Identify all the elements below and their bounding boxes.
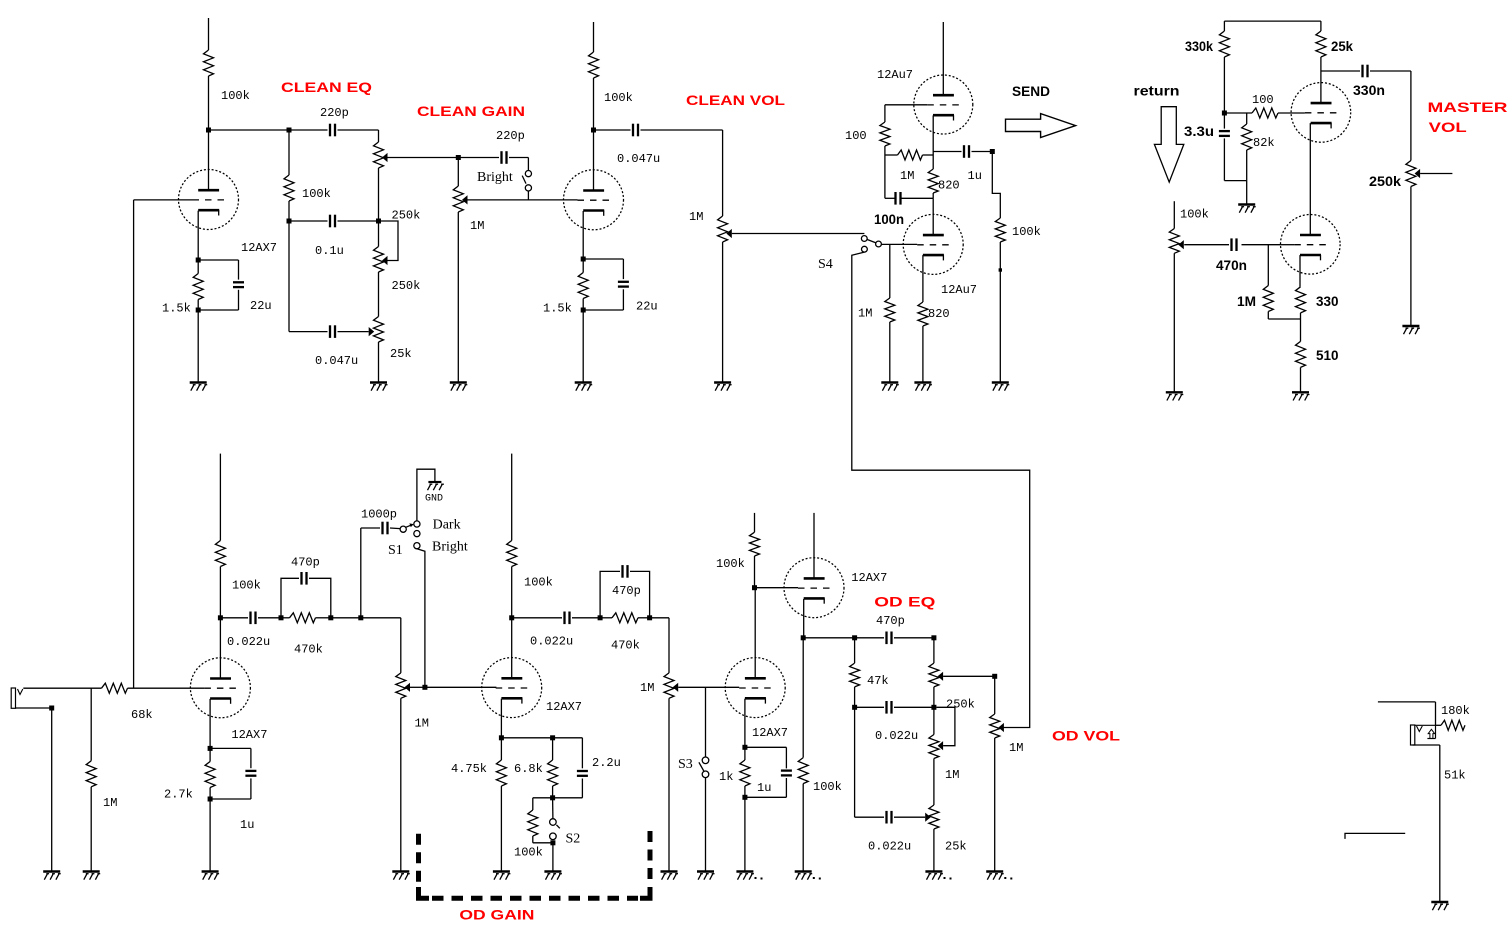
tube V3a 12Au7 return stage bbox=[1291, 83, 1351, 143]
ground S2 bbox=[544, 870, 561, 872]
ground 1M V2b bbox=[881, 381, 898, 383]
node 470k left OD2 bbox=[598, 615, 603, 620]
wire 470k leads OD1 bbox=[281, 617, 290, 619]
wire master wiper out bbox=[1420, 173, 1452, 175]
wiper arrow bass pot bbox=[369, 327, 375, 336]
svg-text:1000p: 1000p bbox=[361, 508, 397, 522]
capacitor 3.3u return bbox=[1223, 113, 1225, 129]
capacitor 0.1u clean EQ bbox=[329, 215, 331, 228]
resistor 1M input bbox=[90, 688, 92, 761]
wire V2b plate lead bbox=[932, 198, 934, 235]
potentiometer 250k master volume bbox=[1406, 161, 1416, 187]
switch Bright clean contact 1 bbox=[525, 171, 531, 177]
wire node C down to 0.047u bbox=[288, 221, 290, 332]
switch S3 contact 2 bbox=[702, 771, 709, 778]
svg-text:100k: 100k bbox=[524, 576, 553, 590]
wire 1M right lead bbox=[923, 154, 934, 156]
svg-text:0.047u: 0.047u bbox=[315, 354, 358, 368]
wire S3 riser bbox=[705, 687, 707, 757]
tube V5b 12AX7 OD follower bbox=[784, 558, 844, 618]
svg-text:CLEAN GAIN: CLEAN GAIN bbox=[417, 103, 525, 119]
wire 22u top lead bbox=[238, 260, 240, 280]
wire 22u bottom lead V1b bbox=[622, 289, 624, 310]
node plate OD3 bbox=[752, 585, 757, 590]
potentiometer 1M clean gain bbox=[453, 186, 463, 212]
node 470k left OD1 bbox=[279, 615, 284, 620]
wire grid V1a bbox=[134, 199, 193, 201]
ground return jack bbox=[1431, 901, 1448, 903]
wire plate lead V1a bbox=[208, 130, 210, 190]
switch S1 throw mid bbox=[414, 531, 420, 537]
wire 820 to 100n node bbox=[932, 193, 934, 198]
switch S3 contact 1 bbox=[702, 757, 709, 764]
wire cathode V1b bbox=[582, 211, 584, 259]
wire 100k OD1 to node bbox=[219, 567, 221, 618]
send arrow bbox=[1006, 114, 1076, 138]
capacitor 470p OD2 bbox=[621, 565, 623, 578]
switch S4 lever bbox=[867, 239, 876, 243]
wire 0.022u to 470k OD2 bbox=[572, 617, 600, 619]
switch Bright lever bbox=[522, 176, 526, 184]
svg-text:100k: 100k bbox=[716, 557, 745, 571]
wire OD gain B to ground bbox=[668, 698, 670, 871]
node input sleeve bbox=[49, 706, 54, 711]
wire 100 to 1M node bbox=[884, 146, 886, 155]
svg-text:Dark: Dark bbox=[433, 518, 461, 533]
svg-text:100k: 100k bbox=[813, 780, 842, 794]
wire S2 node to 100k bbox=[533, 797, 553, 799]
wire wiper to node S1 bbox=[410, 686, 425, 688]
svg-text:510: 510 bbox=[1316, 347, 1339, 363]
wire 820 V2b to ground bbox=[922, 326, 924, 383]
wire plate resistor to node A bbox=[208, 76, 210, 130]
svg-text:4.75k: 4.75k bbox=[451, 762, 487, 776]
node cathode OD3 bbox=[742, 745, 747, 750]
wire OD1 cathode ground bbox=[209, 799, 211, 872]
svg-text:250k: 250k bbox=[1369, 173, 1401, 189]
wire 100k OD2 to node bbox=[511, 567, 513, 618]
resistor 100k plate clean stage 1 bbox=[204, 50, 214, 76]
node 1u output bbox=[990, 149, 995, 154]
wire 1u to 100k bbox=[972, 151, 993, 153]
svg-text:1M: 1M bbox=[640, 681, 654, 695]
wire 1000p to S1 pole bbox=[390, 527, 400, 530]
wire gain pot to ground bbox=[457, 212, 459, 383]
resistor 47k OD EQ bbox=[854, 638, 856, 663]
wire cathode node to 22u V1b bbox=[583, 258, 623, 260]
wire cathode V3a to plate V3b bbox=[1309, 123, 1311, 235]
node cathode bottom V1b bbox=[581, 308, 586, 313]
svg-text:100k: 100k bbox=[1012, 225, 1041, 239]
switch S1 throw Dark bbox=[414, 521, 420, 527]
svg-text:330k: 330k bbox=[1185, 38, 1213, 54]
svg-text:12AX7: 12AX7 bbox=[752, 726, 788, 740]
wire 470k leads OD2 bbox=[600, 617, 612, 619]
svg-text:220p: 220p bbox=[320, 106, 349, 120]
wire clean vol wiper to S4 bbox=[732, 233, 865, 235]
wire B+ feed OD3 bbox=[754, 513, 756, 532]
wire input tip bbox=[23, 687, 101, 689]
wire 22u top lead V1b bbox=[622, 259, 624, 279]
node 470k right OD1 bbox=[328, 615, 333, 620]
svg-text:25k: 25k bbox=[945, 840, 967, 854]
svg-text:0.022u: 0.022u bbox=[875, 729, 918, 743]
wire cathode V1a bbox=[197, 211, 199, 260]
wiper arrow OD treble bbox=[938, 672, 944, 681]
svg-text:1u: 1u bbox=[968, 169, 982, 183]
wire plate node to 330n bbox=[1321, 70, 1360, 72]
wire S3 to ground bbox=[705, 778, 707, 872]
wiper arrow master vol bbox=[1415, 169, 1421, 178]
svg-text:1k: 1k bbox=[719, 770, 733, 784]
resistor 100k send load bbox=[995, 218, 1005, 242]
node S1 tap bbox=[358, 615, 363, 620]
resistor 4.75k cathode OD2 bbox=[496, 760, 506, 786]
node D gain pot top bbox=[456, 155, 461, 160]
wire grid V2a bbox=[885, 104, 927, 106]
potentiometer 100k return bbox=[1169, 229, 1179, 254]
wire OD mid to bass pot bbox=[933, 759, 935, 806]
svg-text:100: 100 bbox=[1252, 93, 1274, 107]
wire 25k to plate node bbox=[1320, 57, 1322, 71]
svg-text:OD VOL: OD VOL bbox=[1052, 728, 1121, 744]
potentiometer 25k OD bass bbox=[929, 805, 939, 829]
svg-text:22u: 22u bbox=[636, 300, 658, 314]
wiper arrow gain pot bbox=[462, 195, 468, 204]
wire 330k to grid node bbox=[1223, 57, 1225, 113]
node cathode bottom OD1 bbox=[208, 797, 213, 802]
wire cathode V2b bbox=[922, 255, 924, 302]
svg-text:0.022u: 0.022u bbox=[530, 635, 573, 649]
potentiometer 250k mid clean bbox=[374, 247, 384, 273]
node 6.8k top bbox=[550, 735, 555, 740]
svg-text:S4: S4 bbox=[818, 257, 833, 272]
svg-text:1M: 1M bbox=[858, 307, 872, 321]
svg-text:OD GAIN: OD GAIN bbox=[459, 907, 534, 923]
ground OD gain A bbox=[392, 870, 409, 872]
ground clean vol pot bbox=[714, 381, 731, 383]
wire 470p bypass OD2 bbox=[600, 571, 620, 617]
ground master pot bbox=[1402, 325, 1419, 327]
svg-text:GND: GND bbox=[425, 494, 443, 505]
capacitor 2.2u OD2 bbox=[581, 738, 583, 769]
node cathode OD2 bbox=[499, 735, 504, 740]
svg-text:100k: 100k bbox=[1180, 208, 1209, 222]
svg-text:12AX7: 12AX7 bbox=[241, 241, 277, 255]
svg-text:470p: 470p bbox=[291, 556, 320, 570]
wire cathode to ground bbox=[197, 310, 199, 383]
ground follower load bbox=[795, 870, 812, 872]
svg-text:MASTER: MASTER bbox=[1428, 99, 1508, 115]
svg-text:100k: 100k bbox=[232, 579, 261, 593]
tube V4a 12AX7 OD stage 1 bbox=[190, 658, 250, 718]
wire node A to node B bbox=[209, 129, 290, 131]
svg-text:100n: 100n bbox=[874, 211, 904, 227]
wire bright switch to grid bbox=[527, 191, 529, 200]
svg-text:2.7k: 2.7k bbox=[164, 788, 193, 802]
potentiometer 25k bass clean bbox=[374, 317, 384, 343]
wiper arrow OD mid bbox=[938, 741, 944, 750]
wire cathode OD3 bbox=[744, 699, 746, 748]
wire node D to 220p bright bbox=[458, 157, 499, 159]
junction dot send load bbox=[999, 268, 1002, 271]
svg-text:1u: 1u bbox=[757, 781, 771, 795]
wire 1u tap bbox=[933, 151, 961, 153]
wiper arrow mid pot bbox=[382, 256, 388, 265]
wire node to S1 node bbox=[331, 617, 361, 619]
wire bus to 470p bbox=[803, 637, 854, 639]
wire 25k OD to ground bbox=[933, 829, 935, 872]
capacitor 330n master bbox=[1361, 65, 1363, 78]
svg-text:100k: 100k bbox=[302, 187, 331, 201]
wire node C to 0.1u bbox=[289, 220, 328, 222]
resistor 330k feedback bbox=[1223, 21, 1225, 31]
svg-text:0.022u: 0.022u bbox=[227, 635, 270, 649]
wire S2 to ground bbox=[552, 843, 554, 872]
capacitor 22u clean stage 2 bbox=[618, 281, 629, 283]
wire 0.047u to clean vol pot bbox=[641, 129, 723, 131]
resistor 1M horizontal follower bbox=[898, 150, 923, 160]
svg-text:return: return bbox=[1134, 83, 1180, 99]
ground OD1 cathode bbox=[202, 870, 219, 872]
svg-text:0.022u: 0.022u bbox=[868, 840, 911, 854]
svg-text:25k: 25k bbox=[390, 347, 412, 361]
ground dots follower bbox=[813, 877, 815, 879]
wire B+ feed follower bbox=[942, 22, 944, 86]
wire OD EQ bass drop bbox=[854, 707, 856, 817]
svg-text:S3: S3 bbox=[678, 757, 693, 772]
wire node B to 220p bbox=[289, 129, 328, 131]
svg-text:820: 820 bbox=[928, 307, 950, 321]
capacitor 1000p S1 bbox=[381, 522, 383, 535]
resistor 1.5k cathode V1a bbox=[197, 260, 199, 274]
switch S4 throw 2 bbox=[862, 246, 868, 252]
svg-text:1.5k: 1.5k bbox=[543, 302, 572, 316]
capacitor 220p bright clean bbox=[500, 151, 502, 164]
svg-text:12AX7: 12AX7 bbox=[851, 571, 887, 585]
resistor 100 grid V3a bbox=[1252, 108, 1278, 118]
wire V1b plate to 0.047u bbox=[594, 129, 631, 131]
ground clean gain pot bbox=[450, 381, 467, 383]
svg-text:470k: 470k bbox=[294, 643, 323, 657]
svg-text:6.8k: 6.8k bbox=[514, 762, 543, 776]
node cathode OD1 bbox=[208, 746, 213, 751]
capacitor 470n master bbox=[1230, 238, 1232, 251]
capacitor 1u send bbox=[963, 145, 965, 158]
resistor 25k plate V3a bbox=[1320, 21, 1322, 31]
ground return pot bbox=[1166, 391, 1183, 393]
wire master pot to ground bbox=[1410, 187, 1412, 327]
wire S1 riser bbox=[360, 528, 362, 618]
svg-text:CLEAN EQ: CLEAN EQ bbox=[281, 79, 372, 95]
return arrow bbox=[1154, 107, 1183, 182]
wire to OD gain B pot bbox=[650, 617, 669, 619]
wire 1u OD1 top lead bbox=[250, 748, 252, 768]
capacitor 0.047u clean EQ bbox=[329, 325, 331, 338]
svg-text:82k: 82k bbox=[1253, 136, 1275, 150]
return jack bbox=[1411, 725, 1415, 745]
svg-text:1M: 1M bbox=[470, 219, 484, 233]
resistor 1.5k cathode V1b bbox=[582, 259, 584, 273]
wire OD3 cathode ground bbox=[744, 797, 746, 871]
wire cathode node to 1u OD1 bbox=[210, 747, 251, 749]
wire grid V3a line bbox=[1224, 112, 1252, 114]
wire 330n to master pot bbox=[1370, 70, 1411, 72]
svg-text:S1: S1 bbox=[388, 543, 403, 558]
wire cathode bus OD2 bbox=[501, 737, 582, 739]
node S2 bottom bbox=[550, 840, 555, 845]
wire OD1 node to 0.022u bbox=[220, 617, 248, 619]
tube V4b 12AX7 OD stage 2 bbox=[482, 658, 542, 718]
wire cathode node to 22u bbox=[198, 259, 238, 261]
wire 470p leads bbox=[855, 637, 884, 639]
wire 100k send to ground bbox=[999, 242, 1001, 383]
resistor 1k cathode OD3 bbox=[740, 760, 750, 786]
svg-text:470n: 470n bbox=[1216, 257, 1247, 273]
wiper arrow OD gain A bbox=[405, 683, 411, 692]
switch S1 throw Bright bbox=[414, 543, 420, 549]
wire plate lead V1b bbox=[593, 130, 595, 191]
wire OD gain A to ground bbox=[400, 698, 402, 871]
svg-text:S2: S2 bbox=[566, 832, 581, 847]
wire B+ feed stage 1 bbox=[208, 18, 210, 50]
wire to OD2 grid bbox=[425, 686, 497, 688]
node treble-mid junction bbox=[376, 219, 381, 224]
capacitor 220p clean EQ bbox=[329, 124, 331, 137]
svg-text:220p: 220p bbox=[496, 129, 525, 143]
resistor 100k plate OD1 bbox=[215, 541, 225, 567]
wire S2 stub bbox=[552, 798, 554, 819]
wire plate lead OD3 bbox=[754, 588, 756, 679]
resistor 100k follower load bbox=[802, 638, 804, 758]
potentiometer 1M OD volume bbox=[994, 676, 996, 714]
ground master cathode bbox=[1292, 391, 1309, 393]
switch S2 contact 1 bbox=[550, 819, 557, 826]
wire join to ground master grid bbox=[1246, 181, 1248, 205]
wire 68k to OD1 grid bbox=[128, 687, 205, 689]
wire 0.1u to mid node bbox=[338, 220, 379, 222]
switch S4 throw 1 bbox=[861, 236, 867, 242]
resistor 100k plate OD3 bbox=[750, 532, 760, 556]
wire grid V2b to 1M bbox=[889, 244, 891, 298]
ground OD3 cathode bbox=[736, 870, 753, 872]
wire grid follower bbox=[755, 587, 799, 589]
wire plate resistor to V1b node bbox=[593, 78, 595, 130]
svg-text:1M: 1M bbox=[689, 210, 703, 224]
wire 220p bright to switch bbox=[509, 157, 528, 159]
switch S2 lever bbox=[556, 825, 559, 829]
wire B+ feed OD1 bbox=[219, 454, 221, 541]
svg-text:1M: 1M bbox=[415, 717, 429, 731]
tube V3b 12Au7 master output bbox=[1281, 215, 1341, 275]
ground dots OD3 bbox=[755, 877, 757, 879]
node S2 top bbox=[550, 795, 555, 800]
resistor 1M grid V3b bbox=[1267, 245, 1269, 286]
node 47k bottom bbox=[852, 705, 857, 710]
capacitor 22u clean stage 1 bbox=[233, 281, 244, 283]
ground 4.75k bbox=[493, 870, 510, 872]
svg-text:1M: 1M bbox=[945, 768, 959, 782]
node plate OD2 bbox=[509, 615, 514, 620]
wire bass pot to ground bbox=[378, 342, 380, 383]
wire cathode OD2 bbox=[500, 699, 502, 738]
wire Dark to GND bbox=[417, 469, 435, 521]
svg-text:470p: 470p bbox=[612, 584, 641, 598]
ground OD gain B bbox=[661, 870, 678, 872]
potentiometer 1M OD gain B bbox=[664, 673, 674, 698]
capacitor 470p OD1 bbox=[300, 572, 302, 585]
node grid V3a bbox=[1222, 111, 1227, 116]
bracket OD GAIN bbox=[416, 834, 421, 886]
wire 330 to 510 bbox=[1300, 313, 1302, 342]
node 470k right OD2 bbox=[647, 615, 652, 620]
ground 820 V2b bbox=[914, 381, 931, 383]
wire 0.022u to 470k node bbox=[258, 617, 281, 619]
capacitor 100n interstage bbox=[894, 192, 896, 205]
node C bbox=[287, 219, 292, 224]
ground OD EQ bbox=[925, 870, 942, 872]
svg-text:250k: 250k bbox=[946, 698, 975, 712]
wiper arrow clean vol bbox=[726, 229, 732, 238]
potentiometer 250k treble clean bbox=[374, 142, 384, 168]
svg-text:250k: 250k bbox=[392, 279, 421, 293]
wire cathode V2a down bbox=[932, 115, 934, 169]
wire S4 common to grid V2b bbox=[881, 243, 917, 245]
resistor 68k grid stopper bbox=[102, 683, 128, 693]
switch Bright clean contact 2 bbox=[525, 185, 531, 191]
wire grid V1a down to input bbox=[133, 200, 135, 688]
wire OD treble wiper bbox=[943, 675, 995, 677]
wire cathode node to 1u OD3 bbox=[745, 746, 787, 748]
tube V5a 12AX7 OD stage 3 bbox=[725, 658, 785, 718]
wire grid drop to 100 bbox=[884, 105, 886, 122]
wire input sleeve bbox=[16, 707, 52, 709]
svg-text:VOL: VOL bbox=[1429, 119, 1468, 135]
wiper arrow OD vol bbox=[998, 723, 1004, 732]
wire 0.022u mid leads bbox=[855, 706, 884, 708]
svg-text:Bright: Bright bbox=[432, 539, 468, 554]
resistor 820 cathode V2a bbox=[928, 169, 938, 193]
ground input jack bbox=[43, 870, 60, 872]
resistor 1M grid V2b bbox=[885, 298, 895, 322]
wire 220p to treble pot bbox=[338, 129, 379, 131]
resistor 100k plate OD2 bbox=[507, 541, 517, 567]
ground dots OD vol bbox=[1004, 877, 1006, 879]
svg-text:0.1u: 0.1u bbox=[315, 244, 344, 258]
svg-text:12Au7: 12Au7 bbox=[877, 68, 913, 82]
node cathode bottom V1a bbox=[196, 308, 201, 313]
node OD EQ bus left bbox=[801, 635, 806, 640]
wire return pot to ground bbox=[1173, 253, 1175, 392]
wire 100n right bbox=[901, 197, 934, 199]
svg-text:68k: 68k bbox=[131, 708, 153, 722]
ground S3 bbox=[697, 870, 714, 872]
wire clean vol pot to ground bbox=[722, 242, 724, 383]
wire plate lead V3a bbox=[1320, 71, 1322, 103]
wire Bright to wiper node bbox=[417, 549, 425, 688]
ground V1a cathode bbox=[190, 381, 207, 383]
wire gain wiper to V1b grid bbox=[468, 199, 578, 201]
node OD EQ mid right bbox=[931, 705, 936, 710]
svg-text:1u: 1u bbox=[240, 818, 254, 832]
svg-text:OD EQ: OD EQ bbox=[874, 594, 935, 610]
ground master grid bbox=[1238, 203, 1255, 205]
wire mid wiper loop bbox=[381, 221, 398, 261]
svg-text:SEND: SEND bbox=[1012, 83, 1050, 99]
node B bbox=[287, 128, 292, 133]
svg-text:3.3u: 3.3u bbox=[1184, 123, 1214, 139]
tube V2b 12Au7 mix stage bbox=[903, 214, 963, 274]
